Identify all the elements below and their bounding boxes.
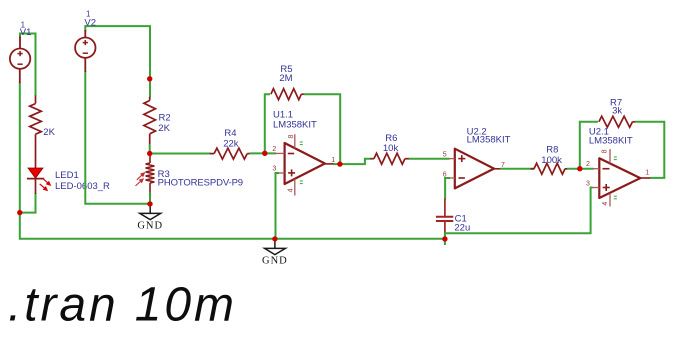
voltage source V2 bbox=[75, 30, 95, 72]
svg-text:.tran 10m: .tran 10m bbox=[8, 279, 237, 332]
nc marks pin4 bbox=[300, 181, 303, 184]
node junction R4/R5/pin2 bbox=[262, 151, 267, 156]
svg-text:8: 8 bbox=[602, 149, 609, 153]
wire LED bottom to junction bbox=[20, 193, 36, 213]
wire stub below C1 node bbox=[444, 239, 446, 245]
wire U1.1 pin3 to ground rail bbox=[276, 173, 280, 239]
output stub U2.1 bbox=[640, 177, 650, 179]
wire R6 to U2.2 pin5 bbox=[409, 158, 450, 160]
svg-text:22k: 22k bbox=[223, 138, 239, 149]
node junction output U1.1 bbox=[337, 161, 342, 166]
node junction C1/rail bbox=[442, 236, 447, 241]
svg-text:4: 4 bbox=[288, 188, 295, 192]
wire R5 feedback right to output bbox=[304, 94, 341, 164]
svg-text:2K: 2K bbox=[43, 127, 55, 138]
svg-text:2M: 2M bbox=[279, 73, 292, 84]
resistor R5 bbox=[271, 89, 304, 100]
wire V2 top to R2 chain bbox=[85, 26, 150, 97]
wire node to R4 bbox=[150, 153, 211, 155]
svg-text:V1: V1 bbox=[20, 27, 32, 38]
svg-text:V2: V2 bbox=[84, 18, 96, 29]
wire V1 top to R1 chain bbox=[20, 34, 36, 97]
wire R7 feedback right to output bbox=[635, 122, 664, 178]
node junction R8/R7/pin2 bbox=[577, 166, 582, 171]
svg-text:GND: GND bbox=[137, 220, 163, 231]
node junction V1-LED bbox=[17, 210, 22, 215]
nc marks pin4 (U2.1) bbox=[614, 196, 617, 199]
svg-text:LED1: LED1 bbox=[55, 170, 79, 181]
svg-text:3: 3 bbox=[272, 166, 276, 173]
svg-text:R6: R6 bbox=[385, 133, 397, 144]
op-amp U2.1 bbox=[592, 149, 640, 206]
LED D1 bbox=[27, 168, 50, 194]
svg-text:2K: 2K bbox=[158, 123, 170, 134]
svg-text:22u: 22u bbox=[454, 222, 470, 233]
wire R3 to ground node bbox=[149, 193, 151, 204]
node junction R3/GND bbox=[147, 201, 152, 206]
svg-text:8: 8 bbox=[288, 135, 295, 139]
voltage source V1 bbox=[10, 37, 30, 84]
svg-text:LED-0603_R: LED-0603_R bbox=[55, 181, 110, 192]
svg-text:PHOTORESPDV-P9: PHOTORESPDV-P9 bbox=[158, 177, 244, 188]
svg-text:LM358KIT: LM358KIT bbox=[589, 136, 633, 147]
output stub U2.2 bbox=[494, 168, 501, 170]
resistor R6 bbox=[371, 153, 410, 164]
nc marks pin8 bbox=[300, 142, 303, 145]
svg-text:2: 2 bbox=[272, 146, 276, 153]
svg-text:10k: 10k bbox=[383, 143, 399, 154]
R3 light arrows bbox=[136, 173, 145, 186]
wire V2 bottom to R3 ground node bbox=[85, 71, 149, 204]
photoresistor R3 bbox=[146, 154, 155, 194]
node junction GND2 bbox=[272, 236, 277, 241]
wire rail to U2.1 pin3 bbox=[445, 188, 593, 240]
resistor R8 bbox=[531, 163, 568, 174]
output stub U1.1 bbox=[325, 163, 334, 165]
svg-text:3: 3 bbox=[586, 181, 590, 188]
node junction R2/R3/R4 bbox=[147, 151, 152, 156]
resistor R4 bbox=[210, 148, 250, 159]
svg-text:1: 1 bbox=[331, 157, 335, 164]
op-amp U2.2 bbox=[449, 149, 494, 189]
wire U2.2 pin6 down to C1 bbox=[445, 178, 450, 200]
wire U1.1 output bbox=[334, 163, 341, 165]
op-amp U1.1 bbox=[275, 134, 325, 195]
svg-text:1: 1 bbox=[645, 169, 649, 176]
svg-text:100k: 100k bbox=[541, 155, 562, 166]
node junction V2 wire bbox=[147, 76, 152, 81]
ground GND1 bbox=[140, 204, 161, 220]
svg-text:3k: 3k bbox=[612, 105, 622, 116]
wire R8 to U2.1 pin2 bbox=[567, 168, 594, 170]
resistor R7 bbox=[599, 116, 636, 127]
wire R7 feedback left bbox=[580, 122, 598, 169]
resistor R1 bbox=[30, 96, 42, 169]
svg-text:LM358KIT: LM358KIT bbox=[467, 134, 511, 145]
svg-text:4: 4 bbox=[602, 202, 609, 206]
wire R5 feedback left bbox=[265, 94, 270, 153]
ground GND2 bbox=[265, 239, 286, 255]
svg-text:R8: R8 bbox=[546, 145, 558, 156]
svg-text:5: 5 bbox=[443, 151, 447, 158]
svg-text:LM358KIT: LM358KIT bbox=[273, 120, 317, 131]
wire R2 to node bbox=[149, 144, 151, 154]
wire U2.2 output to R8 bbox=[500, 168, 535, 170]
resistor R2 bbox=[144, 97, 156, 145]
wire output to R6 bbox=[340, 159, 371, 164]
nc marks pin8 (U2.1) bbox=[614, 157, 617, 160]
wire R4 to U1.1 pin2 node bbox=[250, 152, 277, 154]
capacitor C1 bbox=[436, 199, 453, 240]
wire V1 left branch down and bottom rail bbox=[20, 82, 445, 239]
svg-text:GND: GND bbox=[262, 255, 288, 266]
svg-text:2: 2 bbox=[586, 161, 590, 168]
